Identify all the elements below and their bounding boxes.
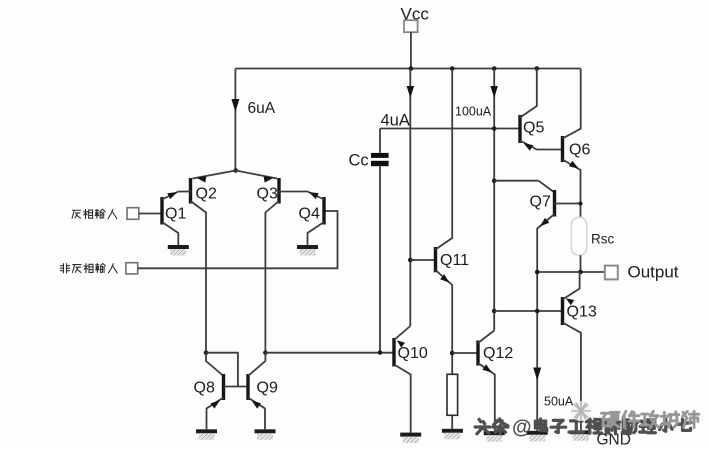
node Q7 base junction xyxy=(579,202,583,206)
node Q8 collector xyxy=(204,350,209,355)
wire Q4 emitter xyxy=(308,192,325,200)
node input-pair common emitters xyxy=(233,168,238,173)
svg-text:Q10: Q10 xyxy=(398,345,428,362)
wire Q6 emitter xyxy=(563,160,581,218)
node rail-Q5 junction xyxy=(535,66,540,71)
node 50uA-Q13 base junction xyxy=(535,309,540,314)
wire 6uA branch xyxy=(234,69,236,171)
emitter arrow Q9 xyxy=(252,400,262,408)
label inverting input xyxy=(72,209,117,218)
ground under Q9 xyxy=(255,429,276,440)
wire non-inverting input to Q4 base xyxy=(138,211,338,268)
wire Q8-Q9 base tie xyxy=(224,386,249,388)
wire Q9 emitter xyxy=(248,398,265,430)
current arrow 6uA xyxy=(231,99,239,112)
label 4uA xyxy=(381,112,410,130)
ground under Q13 xyxy=(570,430,591,441)
wire Q11 collector xyxy=(436,69,453,250)
node Q5 base junction xyxy=(492,126,497,131)
transistor Q11 xyxy=(436,247,470,272)
wire Q2 collector xyxy=(191,201,207,353)
wire Q1 emitter xyxy=(162,192,178,200)
svg-text:Rsc: Rsc xyxy=(591,232,614,247)
watermark toutiao text xyxy=(475,417,691,439)
label 50uA xyxy=(544,395,574,409)
wire Q11 emitter xyxy=(436,270,453,374)
current arrow 50uA xyxy=(533,368,541,381)
wire Q10 emitter xyxy=(394,365,411,433)
wire output line xyxy=(537,271,604,273)
emitter arrow Q8 xyxy=(211,400,221,408)
transistor Q13 xyxy=(563,297,597,325)
wire Q7 base xyxy=(555,203,581,205)
current arrow 4uA xyxy=(407,86,415,98)
wire Q13 collector xyxy=(563,272,580,300)
wire Cc top xyxy=(379,129,381,153)
wire Q2 base xyxy=(178,191,190,193)
label non-inverting input xyxy=(60,263,117,272)
wire Q5 base rail xyxy=(380,128,519,130)
wire Q8 collector xyxy=(206,353,224,376)
wire Q6 collector xyxy=(563,69,581,139)
wire Q11 base xyxy=(410,259,435,261)
terminal Output xyxy=(605,266,618,280)
wire Q1 base xyxy=(139,213,162,215)
svg-text:Q1: Q1 xyxy=(165,206,186,223)
wire Q12 emitter xyxy=(478,363,495,431)
label GND xyxy=(597,432,631,449)
svg-text:Cc: Cc xyxy=(349,152,369,170)
ground under Q1 xyxy=(168,245,189,256)
emitter arrow Q2 xyxy=(197,176,207,183)
svg-text:Q7: Q7 xyxy=(530,194,551,211)
emitter arrow Q5 xyxy=(524,143,534,151)
svg-text:Q3: Q3 xyxy=(257,186,278,203)
wire Q9 collector xyxy=(248,353,265,376)
Vcc label xyxy=(401,5,430,24)
emitter arrow Q11 xyxy=(440,274,449,283)
wire Q10 collector xyxy=(394,326,410,340)
wire Q7 collector xyxy=(494,180,538,182)
svg-text:Q5: Q5 xyxy=(523,120,544,137)
wire Rsc to output node xyxy=(580,255,582,272)
wire Q3 emitter xyxy=(236,171,277,179)
wire Q12 collector xyxy=(478,331,494,344)
node Q12 base junction xyxy=(450,351,455,356)
transistor Q4 xyxy=(299,197,325,225)
svg-text:Q11: Q11 xyxy=(440,252,469,269)
resistor R1 xyxy=(447,374,458,415)
wire Q7 emitter xyxy=(537,214,554,431)
label 6uA xyxy=(248,100,276,117)
node Q11 base junction xyxy=(408,258,413,263)
svg-text:Q8: Q8 xyxy=(194,380,215,397)
wire Q5 collector xyxy=(520,69,537,118)
node output-Q7 emitter junction xyxy=(535,270,540,275)
emitter arrow Q6 xyxy=(569,161,579,169)
wire Q12 base xyxy=(452,352,478,354)
ground under resistor xyxy=(442,429,463,440)
svg-text:Q6: Q6 xyxy=(569,142,590,159)
node Cc-Q10 base junction xyxy=(378,350,383,355)
transistor Q5 xyxy=(520,115,544,143)
svg-text:6uA: 6uA xyxy=(248,100,276,117)
wire Q5 emitter xyxy=(520,141,561,150)
transistor Q12 xyxy=(478,341,513,366)
terminal non-inverting input xyxy=(126,263,138,274)
transistor Q3 xyxy=(257,178,280,204)
svg-text:Q2: Q2 xyxy=(196,186,217,203)
ground under Q12 xyxy=(484,431,505,442)
wire 100uA branch xyxy=(493,69,495,331)
transistor Q1 xyxy=(162,197,186,225)
wire 4uA branch xyxy=(409,69,411,327)
emitter arrow Q12 xyxy=(482,364,492,372)
transistor Q6 xyxy=(563,136,591,162)
current arrow 100uA xyxy=(490,86,498,98)
emitter arrow Q3 xyxy=(264,176,274,183)
ground under 50uA xyxy=(527,431,548,442)
node rail-100uA junction xyxy=(492,66,497,71)
svg-text:100uA: 100uA xyxy=(455,105,492,119)
node Q9 collector xyxy=(263,350,268,355)
transistor Q9 xyxy=(248,374,278,400)
transistor Q2 xyxy=(191,178,217,204)
wire mirror output to Q10 base xyxy=(265,352,392,354)
node Q7 collector junction xyxy=(492,178,497,183)
emitter arrow Q7 xyxy=(540,218,549,227)
svg-text:Q12: Q12 xyxy=(483,345,513,362)
watermark logo xyxy=(571,401,591,421)
ground under Q10 xyxy=(400,433,421,444)
svg-text:4uA: 4uA xyxy=(381,112,410,130)
resistor Rsc xyxy=(571,217,614,255)
wire Vcc to rail xyxy=(410,32,412,68)
svg-text:50uA: 50uA xyxy=(544,395,574,409)
watermark hardware text xyxy=(602,411,699,427)
ground under Q4 xyxy=(297,245,318,256)
emitter arrow Q4 xyxy=(309,192,319,199)
wire Q7 collector slant xyxy=(539,181,555,193)
wire Q1 collector xyxy=(162,222,178,245)
Vcc terminal xyxy=(404,20,418,32)
emitter arrow Q1 xyxy=(167,192,177,199)
transistor Q10 xyxy=(394,338,428,367)
wire Q3 collector xyxy=(265,201,279,353)
label 100uA xyxy=(455,105,492,119)
label Output xyxy=(628,263,679,282)
node output-Rsc junction xyxy=(578,270,583,275)
wire resistor to ground xyxy=(451,415,453,429)
svg-text:@: @ xyxy=(512,417,532,439)
node rail-Vcc junction xyxy=(409,66,414,71)
wire Q13 emitter xyxy=(563,323,581,431)
capacitor Cc xyxy=(349,152,389,170)
collector arrow Q10 xyxy=(397,340,405,347)
wire Cc bottom xyxy=(379,166,381,353)
wire top supply rail xyxy=(235,68,580,70)
svg-text:Q9: Q9 xyxy=(257,380,278,397)
ground under Q8 xyxy=(196,429,217,440)
svg-text:Output: Output xyxy=(628,263,679,282)
wire Q13 base xyxy=(494,310,562,312)
transistor Q7 xyxy=(530,190,555,217)
wire Q3 base xyxy=(279,191,308,193)
transistor Q8 xyxy=(194,374,224,400)
svg-text:Q13: Q13 xyxy=(567,304,597,321)
svg-text:Q4: Q4 xyxy=(299,206,320,223)
wire Q2 emitter xyxy=(193,171,236,179)
node Q13 base junction xyxy=(492,309,497,314)
wire Q8 emitter xyxy=(207,398,224,430)
collector arrow Q13 xyxy=(566,298,574,305)
wire Q4 collector xyxy=(308,222,325,245)
wire base tie to Q8 collector xyxy=(206,353,238,387)
terminal inverting input xyxy=(127,208,139,220)
node rail-Q11 junction xyxy=(450,66,455,71)
